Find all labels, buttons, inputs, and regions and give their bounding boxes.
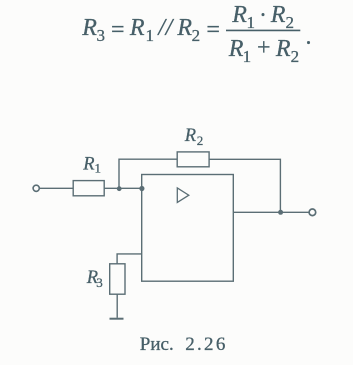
resistor R3 body <box>110 264 125 294</box>
output terminal <box>309 209 316 216</box>
wire input to R1 <box>40 187 73 189</box>
svg-text:R: R <box>275 36 291 62</box>
resistor R1 body <box>73 181 104 196</box>
svg-text:·: · <box>259 3 267 29</box>
label R1 <box>82 154 101 175</box>
svg-text:R: R <box>176 15 192 41</box>
svg-text:2: 2 <box>192 26 201 45</box>
svg-text:R: R <box>82 154 94 174</box>
junction at op-amp input pin <box>139 186 144 191</box>
svg-text:1: 1 <box>243 47 252 66</box>
svg-text:1: 1 <box>95 160 102 175</box>
svg-text:Рис.: Рис. <box>140 334 174 355</box>
op-amp triangle symbol <box>177 188 189 203</box>
op-amp U1 box <box>142 175 234 282</box>
svg-text:=: = <box>111 17 125 43</box>
svg-text:3: 3 <box>96 275 103 290</box>
svg-text:+: + <box>257 35 271 61</box>
label R3 <box>86 268 103 290</box>
svg-text:R: R <box>184 126 196 146</box>
wire output <box>233 211 308 213</box>
svg-text:=: = <box>206 17 220 43</box>
svg-text:.: . <box>306 24 312 50</box>
svg-text:R: R <box>228 36 244 62</box>
svg-text:1: 1 <box>146 26 155 45</box>
svg-text:3: 3 <box>97 26 106 45</box>
svg-text:R: R <box>270 2 286 28</box>
wire feedback: node A up and across to R2 <box>119 159 177 188</box>
svg-text:1: 1 <box>247 13 256 32</box>
input terminal <box>33 185 39 191</box>
svg-text:2: 2 <box>291 47 300 66</box>
fraction bar <box>226 29 300 31</box>
svg-text:2.26: 2.26 <box>185 334 227 355</box>
wire R3 to ground <box>116 294 118 318</box>
svg-text:R: R <box>231 2 247 28</box>
wire op-amp to R3 <box>117 254 142 264</box>
svg-text:R: R <box>81 15 97 41</box>
wire R2 to output node <box>209 159 280 212</box>
junction at output node <box>278 210 283 215</box>
label R2 <box>184 126 204 148</box>
formula R3 = R1 // R2 = (R1*R2)/(R1+R2) <box>81 2 311 66</box>
junction node A (R1/R2/op-amp) <box>117 186 122 191</box>
svg-text:2: 2 <box>286 13 295 32</box>
ground <box>110 318 124 320</box>
svg-text:2: 2 <box>197 133 204 148</box>
svg-text:R: R <box>129 15 145 41</box>
resistor R2 body <box>177 152 209 167</box>
wire R1 to op-amp input <box>104 187 142 189</box>
